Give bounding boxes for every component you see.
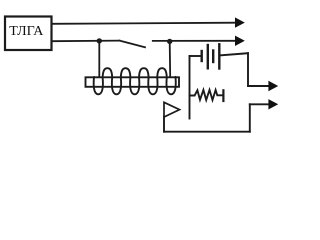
switch S1 blade — [120, 41, 146, 48]
wire vertical bus — [189, 56, 191, 119]
arrow 1 — [235, 17, 245, 27]
box U1 ТЛГА — [5, 17, 52, 51]
arrow 2 — [235, 36, 245, 46]
wire coil right lead — [169, 42, 172, 78]
arrow 3 — [268, 81, 278, 91]
battery GB1 plate tall 1 — [207, 45, 209, 68]
inductor L1 winding — [94, 68, 176, 94]
wire battery right — [221, 53, 249, 55]
battery GB1 plate short 1 — [200, 51, 202, 61]
wire battery left stub — [190, 55, 202, 57]
wire arrow 4 lead — [250, 103, 269, 105]
wire right drop 1 — [247, 53, 249, 86]
label ТЛГА — [0, 25, 53, 39]
wire top output — [52, 23, 236, 24]
wire arrow 3 lead — [248, 85, 269, 87]
wire triangle lead — [163, 117, 165, 132]
arrow 4 — [268, 99, 278, 109]
relay core — [86, 77, 180, 87]
contact end bar — [222, 90, 224, 101]
node junction dot left — [97, 38, 102, 43]
wire coil left lead — [98, 41, 100, 77]
battery GB1 plate short 2 — [212, 51, 214, 63]
wire right riser 2 — [249, 104, 251, 131]
wire switch right to arrow — [153, 40, 236, 42]
wire bottom — [164, 131, 250, 133]
resistor R1 — [190, 90, 223, 100]
node junction dot right — [167, 39, 172, 44]
wire lower output — [52, 40, 120, 43]
armature contact triangle — [164, 102, 180, 117]
battery GB1 plate tall 2 — [218, 44, 220, 68]
